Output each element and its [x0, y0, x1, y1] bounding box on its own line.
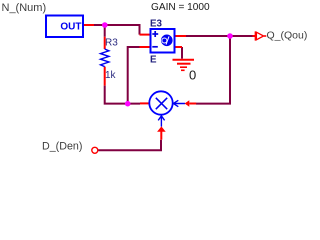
svg-text:OUT: OUT	[60, 22, 81, 33]
svg-text:Q_(Qou): Q_(Qou)	[267, 30, 308, 42]
svg-text:0: 0	[189, 67, 196, 82]
svg-text:GAIN = 1000: GAIN = 1000	[151, 2, 210, 13]
svg-text:D_(Den): D_(Den)	[42, 141, 82, 153]
svg-text:R3: R3	[105, 38, 118, 49]
svg-text:1k: 1k	[105, 70, 117, 81]
svg-text:E3: E3	[150, 19, 163, 30]
svg-text:E: E	[150, 55, 157, 66]
svg-text:N_(Num): N_(Num)	[2, 2, 47, 14]
